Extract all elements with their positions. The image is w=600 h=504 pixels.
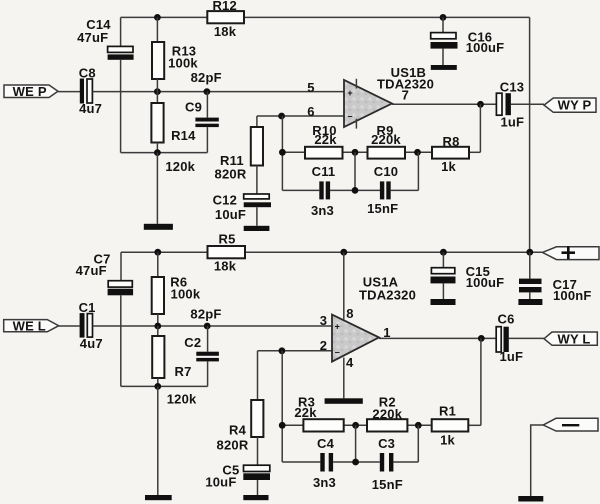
wire output row P [392, 103, 544, 105]
svg-text:–: – [347, 111, 352, 121]
junction output P [477, 101, 484, 108]
wire cap row L [282, 425, 418, 462]
svg-text:C4: C4 [317, 436, 335, 451]
value label TDA2320 (US1B) [377, 77, 434, 92]
wire WE P to C8 [58, 91, 80, 93]
junction input P at R13/R14 [154, 88, 161, 95]
capacitor C15 [431, 252, 456, 299]
svg-text:R4: R4 [229, 423, 247, 438]
svg-text:18k: 18k [214, 24, 237, 39]
svg-text:3n3: 3n3 [313, 475, 336, 490]
junction supply rail at pin 8 [340, 249, 347, 256]
svg-text:R7: R7 [174, 364, 191, 379]
label R4 [229, 423, 247, 438]
svg-text:7: 7 [402, 88, 409, 103]
junction cap row mid L [352, 459, 359, 466]
svg-text:R5: R5 [218, 231, 235, 246]
svg-text:8: 8 [346, 306, 353, 321]
svg-text:220k: 220k [372, 406, 402, 421]
pin label 7 [402, 88, 409, 103]
capacitor C5 [243, 465, 270, 495]
capacitor C7 [108, 281, 134, 296]
connector + supply [542, 246, 599, 259]
value label C8 [79, 65, 102, 115]
junction cap row mid P [352, 187, 359, 194]
svg-text:3: 3 [320, 313, 327, 328]
connector WE P [4, 84, 58, 99]
svg-text:4u7: 4u7 [80, 336, 103, 351]
svg-text:C11: C11 [312, 164, 336, 179]
resistor R10 [305, 147, 343, 159]
label R11 [220, 153, 244, 168]
resistor R3 [303, 419, 343, 431]
svg-text:120k: 120k [165, 159, 195, 174]
pin label 4 [346, 355, 354, 370]
value label 820R (R11) [215, 166, 247, 181]
svg-text:10uF: 10uF [205, 474, 236, 489]
value label 3n3 (C11) [311, 203, 334, 218]
svg-text:+: + [335, 321, 340, 331]
resistor R9 [368, 147, 406, 159]
svg-text:C13: C13 [500, 79, 524, 94]
ground below C12 [244, 226, 270, 231]
label R8 [442, 134, 459, 149]
junction feedback left L [279, 422, 286, 429]
svg-text:C8: C8 [79, 65, 96, 80]
svg-text:C1: C1 [79, 300, 96, 315]
svg-text:R14: R14 [171, 128, 196, 143]
capacitor C16 [431, 17, 458, 65]
value label 82pF (C2) [190, 306, 221, 321]
label R6 [170, 275, 187, 290]
wire - supply lead [531, 425, 544, 496]
junction input L at C2 [204, 323, 211, 330]
label R2 [379, 395, 396, 410]
value label 22k (R3) [294, 405, 317, 420]
capacitor C4 [320, 453, 333, 472]
label R5 [218, 231, 235, 246]
svg-text:100k: 100k [171, 287, 201, 302]
wire R7 ground lead [157, 386, 159, 495]
ground below R7 [145, 495, 172, 500]
svg-text:82pF: 82pF [190, 306, 221, 321]
wire output to R1 vertical [480, 338, 482, 425]
junction supply rail at C15 [440, 249, 447, 256]
svg-text:5: 5 [307, 80, 314, 95]
ground below - supply [518, 496, 543, 502]
svg-text:100k: 100k [168, 55, 198, 70]
junction pin 2 / feedback [279, 347, 286, 354]
wire output to R8 vertical [479, 104, 481, 152]
svg-text:1: 1 [383, 325, 390, 340]
pin label 5 [307, 80, 314, 95]
svg-text:100uF: 100uF [466, 40, 505, 55]
svg-text:+: + [347, 88, 352, 98]
resistor R8 [432, 147, 469, 159]
wire top rail [121, 16, 530, 18]
junction output L [478, 335, 485, 342]
resistor R14 [151, 92, 163, 153]
capacitor C12 [244, 194, 271, 226]
svg-text:6: 6 [307, 104, 314, 119]
value label 22k (R10) [314, 132, 337, 147]
label C16 [468, 30, 492, 45]
label C14 [86, 17, 111, 32]
svg-text:C12: C12 [213, 193, 237, 208]
svg-text:C3: C3 [378, 436, 395, 451]
svg-text:2: 2 [320, 338, 327, 353]
junction bias row P [154, 149, 161, 156]
svg-text:1k: 1k [440, 433, 455, 448]
svg-text:C10: C10 [374, 164, 398, 179]
svg-text:WE L: WE L [13, 318, 46, 333]
label C17 [553, 277, 577, 292]
resistor R4 [251, 351, 263, 465]
pin label 3 [320, 313, 327, 328]
value label 47uF (C14) [77, 30, 108, 45]
label C5 [222, 463, 239, 478]
value label 1uF (C6) [499, 349, 523, 364]
wire C7 top lead [120, 252, 122, 280]
connector WY P [544, 98, 596, 113]
label R7 [174, 364, 191, 379]
value label 82pF (C9) [191, 70, 222, 85]
value label 100k (R6) [171, 287, 201, 302]
junction top rail at R13 [154, 14, 161, 21]
svg-text:3n3: 3n3 [311, 203, 334, 218]
wire C7 bottom lead [120, 295, 122, 386]
capacitor C6 [496, 327, 509, 352]
ground below C5 [243, 495, 268, 500]
svg-text:10uF: 10uF [215, 207, 246, 222]
junction top rail at C16 [440, 14, 447, 21]
pin label 1 [383, 325, 390, 340]
junction input L at R6/R7 [154, 323, 161, 330]
value label 120k (R14) [165, 159, 195, 174]
value label 47uF (C7) [76, 263, 107, 278]
connector WY L [544, 331, 597, 346]
svg-text:WE P: WE P [13, 84, 47, 99]
wire WE L to C1 [59, 325, 80, 327]
value label 18k (R5) [214, 258, 237, 273]
svg-text:TDA2320: TDA2320 [359, 288, 416, 303]
svg-text:15nF: 15nF [372, 477, 403, 492]
junction feedback mid L [352, 422, 359, 429]
junction input P at C9 [204, 88, 211, 95]
wire input node P (C8 to pin 5) [92, 91, 344, 93]
label C13 [500, 79, 524, 94]
svg-text:1uF: 1uF [499, 349, 523, 364]
wire C14 bottom lead [120, 60, 122, 153]
wire pin 4 lead [343, 358, 345, 399]
connector - supply [543, 418, 598, 431]
svg-text:820R: 820R [217, 438, 249, 453]
svg-text:4: 4 [346, 355, 354, 370]
label R12 [212, 0, 236, 13]
value label 18k (R12) [214, 24, 237, 39]
junction supply rail at C17 [526, 249, 533, 256]
resistor R7 [152, 326, 164, 386]
label R9 [376, 123, 393, 138]
svg-text:4u7: 4u7 [79, 101, 102, 116]
capacitor C10 [380, 181, 391, 199]
value label 10uF (C12) [215, 207, 246, 222]
wire input node L (C1 to pin 3) [93, 325, 333, 327]
svg-text:100nF: 100nF [553, 288, 592, 303]
junction feedback right L [415, 422, 422, 429]
svg-text:–: – [335, 347, 340, 357]
value label TDA2320 (US1A) [359, 288, 416, 303]
label C3 [378, 436, 395, 451]
wire R14 ground lead [156, 153, 158, 224]
resistor R5 [208, 246, 246, 258]
label C2 [184, 335, 201, 350]
value label 15nF (C10) [367, 201, 398, 216]
capacitor C13 [496, 93, 511, 115]
svg-text:C2: C2 [184, 335, 201, 350]
wire pin 6 row [257, 115, 344, 117]
wire bias row L [121, 385, 208, 387]
label C1 [79, 300, 96, 315]
value label 1k (R8) [441, 159, 456, 174]
svg-text:1k: 1k [441, 159, 456, 174]
label R10 [312, 123, 336, 138]
ground below C17 [518, 299, 542, 305]
svg-text:47uF: 47uF [77, 30, 108, 45]
ground below R14 [144, 224, 173, 230]
wire feedback row L [282, 424, 481, 426]
svg-text:22k: 22k [294, 405, 317, 420]
label R3 [298, 395, 315, 410]
label C15 [466, 264, 490, 279]
ground below pin 4 [325, 398, 363, 404]
value label 100k (R13) [168, 55, 198, 70]
label C7 [93, 252, 110, 267]
wire inverting node vertical (pin6 to caps) [281, 116, 283, 190]
wire V+ vertical right [529, 17, 531, 252]
label US1A [363, 275, 399, 290]
svg-text:120k: 120k [167, 392, 197, 407]
junction feedback right P [414, 149, 421, 156]
label R14 [171, 128, 196, 143]
label C6 [497, 312, 514, 327]
label C10 [374, 164, 398, 179]
svg-text:R8: R8 [442, 134, 459, 149]
capacitor C1 [80, 313, 93, 338]
svg-text:82pF: 82pF [191, 70, 222, 85]
resistor R13 [152, 17, 164, 91]
label C12 [213, 193, 237, 208]
value label 15nF (C3) [372, 477, 403, 492]
svg-text:R1: R1 [439, 404, 456, 419]
svg-text:47uF: 47uF [76, 263, 107, 278]
wire + supply rail [121, 251, 542, 253]
wire pin 8 lead [343, 252, 345, 319]
capacitor C2 [196, 326, 219, 386]
pin label 8 [346, 306, 353, 321]
svg-text:22k: 22k [314, 132, 337, 147]
svg-text:C6: C6 [497, 312, 514, 327]
value label 3n3 (C4) [313, 475, 336, 490]
pin label 2 [320, 338, 327, 353]
value label 120k (R7) [167, 392, 197, 407]
label C4 [317, 436, 335, 451]
wire cap row P [282, 152, 418, 190]
resistor R6 [152, 252, 164, 326]
ground below C16 [431, 65, 457, 70]
svg-text:18k: 18k [214, 258, 237, 273]
svg-text:220k: 220k [371, 132, 401, 147]
value label 220k (R9) [371, 132, 401, 147]
value label 4u7 (C1) [80, 336, 103, 351]
capacitor C3 [380, 453, 394, 472]
junction feedback left P [279, 149, 286, 156]
label R1 [439, 404, 456, 419]
svg-text:C9: C9 [185, 100, 202, 115]
resistor R1 [432, 419, 469, 431]
value label 100nF (C17) [553, 288, 592, 303]
capacitor C9 [195, 92, 218, 153]
capacitor C8 [80, 79, 93, 104]
connector WE L [4, 318, 59, 333]
label C11 [312, 164, 336, 179]
label US1B [391, 65, 426, 80]
pin label 6 [307, 104, 314, 119]
capacitor C14 [108, 46, 134, 59]
value label 820R (R4) [217, 438, 249, 453]
wire inverting node vertical L [281, 351, 283, 462]
op-amp US1B [344, 79, 392, 129]
svg-text:R12: R12 [212, 0, 236, 13]
value label 220k (R2) [372, 406, 402, 421]
value label 10uF (C5) [205, 474, 236, 489]
label C9 [185, 100, 202, 115]
wire output row L [379, 337, 544, 339]
junction feedback mid P [352, 149, 359, 156]
svg-text:WY L: WY L [557, 331, 590, 346]
resistor R12 [207, 11, 244, 23]
junction pin 6 / feedback [278, 113, 285, 120]
svg-text:15nF: 15nF [367, 201, 398, 216]
wire bias row P [121, 152, 208, 154]
ground below C15 [431, 299, 456, 305]
value label 1k (R1) [440, 433, 455, 448]
wire pin 2 row [258, 350, 333, 352]
value label 100uF (C16) [466, 40, 505, 55]
wire C14 top lead [120, 17, 122, 46]
label R13 [172, 43, 196, 58]
junction bias row L [154, 383, 161, 390]
svg-text:820R: 820R [215, 166, 247, 181]
value label 100uF (C15) [466, 275, 505, 290]
capacitor C17 [519, 252, 542, 299]
op-amp US1A [332, 315, 379, 362]
svg-text:100uF: 100uF [466, 275, 505, 290]
svg-text:WY P: WY P [558, 98, 592, 113]
junction supply rail at R6 [154, 249, 161, 256]
wire feedback row P [282, 151, 480, 153]
value label 1uF (C13) [500, 114, 524, 129]
resistor R11 [251, 116, 263, 194]
resistor R2 [367, 419, 407, 431]
capacitor C11 [319, 181, 330, 199]
svg-text:1uF: 1uF [500, 114, 524, 129]
